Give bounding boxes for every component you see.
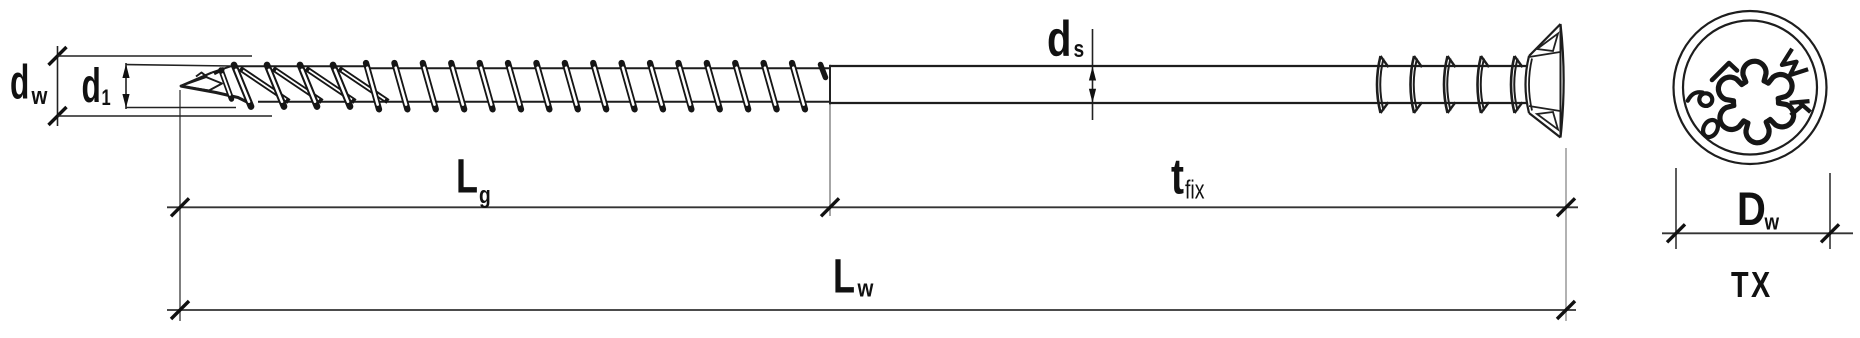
svg-text:w: w [31,82,48,109]
svg-text:d: d [82,58,101,112]
svg-text:TX: TX [1731,264,1773,305]
svg-text:t: t [1171,148,1184,205]
svg-text:L: L [456,150,478,203]
svg-text:w: w [1764,211,1780,235]
svg-text:d: d [1047,11,1071,67]
svg-text:L: L [833,250,855,303]
svg-text:1: 1 [102,86,111,111]
svg-text:d: d [10,55,29,109]
svg-text:D: D [1737,184,1766,236]
svg-text:fix: fix [1185,175,1205,204]
svg-text:w: w [857,275,874,302]
svg-text:s: s [1074,35,1085,63]
svg-text:g: g [479,181,491,209]
